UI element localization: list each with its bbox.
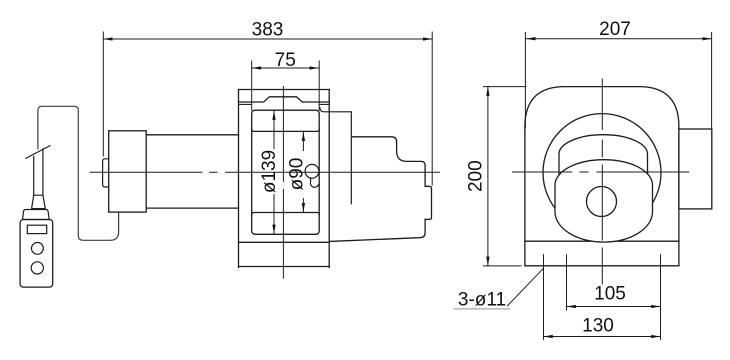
rope clamp keyhole big lobe xyxy=(305,164,319,178)
frame right plate outer edge xyxy=(328,90,330,268)
gearbox lower right edge and bottom xyxy=(330,219,425,241)
housing big circle xyxy=(543,114,661,232)
motor protrusion right view xyxy=(679,129,712,209)
motor end cap xyxy=(109,131,147,212)
pendant cap xyxy=(23,210,50,220)
mounting hole mark right xyxy=(660,255,662,340)
drum flange silhouette window xyxy=(252,110,320,234)
pendant gland nut xyxy=(32,195,46,208)
pendant body xyxy=(20,220,53,288)
leader 3-phi11 xyxy=(508,268,544,305)
frame plate seam top left xyxy=(239,103,252,105)
dimension 207 xyxy=(525,33,711,130)
dimension 75 xyxy=(252,61,320,110)
body bottom edge xyxy=(525,265,679,267)
drum barrel upper edge xyxy=(252,129,320,131)
pendant button 1 xyxy=(32,243,44,255)
leader underline grey xyxy=(454,308,510,310)
motor body xyxy=(146,135,238,208)
svg-text:200: 200 xyxy=(466,160,487,192)
frame top plate xyxy=(239,89,330,91)
dimension phi139 xyxy=(273,111,275,149)
gearbox housing profile xyxy=(352,137,426,187)
shaft circle xyxy=(587,187,617,217)
svg-text:ø90: ø90 xyxy=(287,158,308,191)
frame top band lower edge with hump xyxy=(239,97,330,102)
svg-text:130: 130 xyxy=(582,316,614,337)
centerline right view horizontal xyxy=(513,171,689,173)
gearbox parting line xyxy=(350,112,352,204)
gearbox adapter band top xyxy=(320,108,352,112)
gear cover middle shape xyxy=(559,135,648,185)
mounting hole mark middle xyxy=(566,255,568,310)
centerline drum vertical xyxy=(282,87,284,279)
centerline right view vertical xyxy=(601,79,603,284)
svg-text:105: 105 xyxy=(594,284,626,305)
drum hub squircle xyxy=(555,160,653,242)
dimension phi90 xyxy=(302,132,304,151)
svg-text:75: 75 xyxy=(275,50,296,71)
gearbox cable tab xyxy=(425,186,431,219)
dimension 130 xyxy=(544,336,661,338)
wire pendant cable loop xyxy=(38,106,119,240)
dimension 383 xyxy=(103,32,432,185)
rope clamp keyhole small lobe xyxy=(310,178,318,187)
svg-text:383: 383 xyxy=(252,20,284,41)
svg-text:ø139: ø139 xyxy=(259,150,280,193)
pendant button 2 xyxy=(31,262,43,274)
motor end cap bump xyxy=(103,159,109,187)
wire cable break slash xyxy=(26,146,50,159)
svg-text:3-ø11: 3-ø11 xyxy=(458,290,506,311)
frame base plate bottom xyxy=(239,266,330,268)
drum barrel lower edge xyxy=(252,213,320,215)
centerline left view xyxy=(90,171,440,173)
frame bottom band xyxy=(239,241,330,243)
pendant label window xyxy=(27,225,46,233)
body plate right view xyxy=(525,87,679,266)
mounting hole mark left xyxy=(543,255,545,340)
frame left plate outer edge xyxy=(238,90,240,268)
frame plate seam top right xyxy=(319,103,329,105)
pendant stem xyxy=(34,149,43,195)
svg-text:207: 207 xyxy=(599,19,631,40)
dimension 200 xyxy=(484,87,527,266)
dimension 105 xyxy=(567,306,661,308)
base band line right view xyxy=(525,240,679,242)
